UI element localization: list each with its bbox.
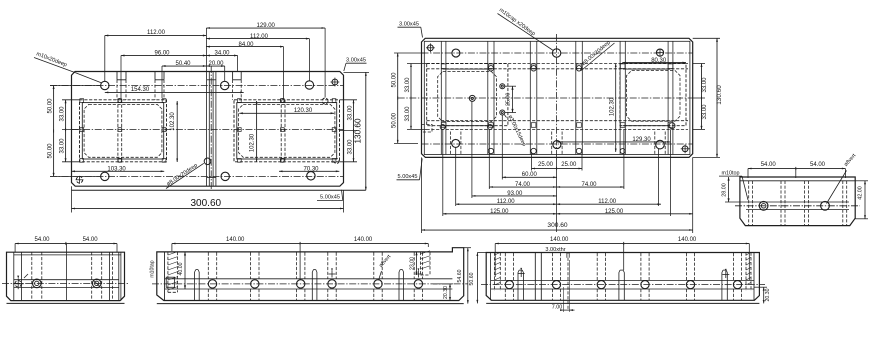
side view K hidden hole lines <box>505 253 741 300</box>
label chamfer 3.00x45 plate1 <box>344 58 367 72</box>
plate 2 column bosses <box>441 64 673 127</box>
side view K bore lines <box>491 279 754 281</box>
svg-text:54.60: 54.60 <box>457 269 463 282</box>
svg-text:5.00x45: 5.00x45 <box>398 174 418 180</box>
side view K position marks <box>518 268 730 278</box>
svg-text:96.00: 96.00 <box>154 50 170 56</box>
dim 125.00 right <box>557 213 693 215</box>
svg-text:50.40: 50.40 <box>175 61 191 67</box>
dim 70.30 <box>279 167 339 173</box>
svg-text:50.00: 50.00 <box>48 143 54 159</box>
dim 125.00 left <box>443 213 557 215</box>
plate 1 horizontal centerline <box>72 129 344 131</box>
side view I position marks <box>329 268 422 277</box>
dim 102.30 pocket A <box>170 101 178 162</box>
side view K centerline <box>481 284 765 286</box>
svg-text:28.00: 28.00 <box>721 183 727 197</box>
svg-text:34.00: 34.00 <box>214 50 230 56</box>
side view H holes <box>33 279 101 288</box>
plate 2 centerlines <box>398 34 693 157</box>
pocket C inner hidden rect <box>438 72 497 122</box>
label dia3.00x15deep with leader <box>504 114 527 147</box>
side view I bore lines <box>165 278 452 280</box>
svg-text:125.00: 125.00 <box>490 209 509 215</box>
svg-text:112.00: 112.00 <box>147 30 166 36</box>
svg-text:25.00: 25.00 <box>538 162 554 168</box>
side view K through hole 3.00 leader <box>545 247 569 310</box>
svg-text:3.00x45: 3.00x45 <box>346 58 366 64</box>
svg-text:3.00x45: 3.00x45 <box>399 22 419 28</box>
label dia8.00x20deep plate1 with leader <box>166 163 204 189</box>
plate 2 slot columns <box>441 41 673 154</box>
svg-text:25.00: 25.00 <box>561 162 577 168</box>
svg-text:40.00: 40.00 <box>178 262 184 275</box>
svg-text:74.00: 74.00 <box>515 182 531 188</box>
dim 300.60 plate1 <box>72 186 344 212</box>
pocket C hidden outline <box>427 64 508 126</box>
svg-text:50.60: 50.60 <box>469 272 475 285</box>
side view H outline <box>7 252 125 303</box>
dim 130.60 plate2 right <box>693 38 723 157</box>
svg-text:m10tap: m10tap <box>150 260 156 277</box>
svg-text:42.00: 42.00 <box>858 186 864 200</box>
svg-text:140.00: 140.00 <box>550 237 569 243</box>
side view G vertical hole lines <box>749 181 847 226</box>
svg-text:140.00: 140.00 <box>226 237 245 243</box>
label dia8.00x20deep plate2 with leader <box>580 40 614 71</box>
svg-text:300.60: 300.60 <box>547 222 568 229</box>
svg-text:60.00: 60.00 <box>522 172 538 178</box>
svg-text:125.00: 125.00 <box>605 209 624 215</box>
svg-text:50.00: 50.00 <box>392 72 398 88</box>
svg-text:33.00: 33.00 <box>702 104 708 120</box>
dim 7.00 side K <box>552 260 575 312</box>
dim 80.30 <box>622 58 686 64</box>
label chamfer 5.00x45 plate2 <box>397 159 423 181</box>
top view plate 2 outline <box>422 38 693 157</box>
svg-text:3.00xthr: 3.00xthr <box>545 247 565 253</box>
dim 28.00 side G <box>721 177 746 202</box>
plate 1 top row holes <box>101 81 314 90</box>
svg-text:33.00: 33.00 <box>405 106 411 122</box>
side view H rim lines <box>14 252 121 300</box>
svg-text:102.30: 102.30 <box>170 112 176 131</box>
dim 33.00 33.00 left <box>60 100 80 162</box>
dim 25.00 25.00 bottom <box>532 162 583 170</box>
side view K pins <box>518 270 727 300</box>
pocket D hidden outline <box>620 64 686 126</box>
dim 129.00 <box>206 23 325 97</box>
svg-text:54.00: 54.00 <box>761 162 777 168</box>
dim 130.60 right <box>344 72 370 190</box>
side view G outline <box>740 177 855 226</box>
dim 54.60 side I <box>457 248 471 304</box>
svg-text:20.00: 20.00 <box>208 61 224 67</box>
dim 103.30 <box>72 167 165 173</box>
pocket B inner hidden rect <box>239 104 335 157</box>
side view G holes <box>759 201 829 210</box>
plate 2 small pin holes dia3 <box>500 84 505 115</box>
side view I outline <box>157 248 464 304</box>
dim 112.00 right bottom <box>557 203 661 205</box>
pocket A inner hidden rect <box>84 104 162 157</box>
side view K outline <box>486 253 759 304</box>
svg-text:20.30: 20.30 <box>765 288 771 301</box>
svg-text:54.00: 54.00 <box>83 237 99 243</box>
svg-text:m10top: m10top <box>722 170 740 176</box>
svg-text:5.00x45: 5.00x45 <box>320 195 340 201</box>
svg-text:80.30: 80.30 <box>651 58 667 64</box>
svg-text:102.30: 102.30 <box>249 133 255 152</box>
pocket A corner bosses <box>80 99 166 163</box>
svg-text:102.30: 102.30 <box>609 97 615 116</box>
label dia8vert side G with leader <box>827 152 858 203</box>
dim extension lines plate2 bottom <box>422 101 693 233</box>
svg-text:103.30: 103.30 <box>107 167 126 173</box>
svg-text:25.00: 25.00 <box>506 93 512 106</box>
dim 60.00 <box>502 176 556 178</box>
svg-text:112.00: 112.00 <box>250 34 269 40</box>
dim 112.00 left <box>105 30 207 81</box>
side view H centerline <box>2 282 128 284</box>
plate 1 hole row centerlines <box>50 85 344 87</box>
svg-text:84.00: 84.00 <box>238 42 254 48</box>
side view I pins <box>195 270 404 301</box>
svg-text:33.00: 33.00 <box>348 105 354 121</box>
svg-text:140.00: 140.00 <box>678 237 697 243</box>
plate 1 bottom row holes <box>101 172 315 181</box>
svg-text:20.30: 20.30 <box>443 286 449 299</box>
side view I holes <box>208 280 422 288</box>
dim 74.00 right <box>557 186 624 188</box>
plate 2 top row holes <box>452 49 664 58</box>
dim 96.00 <box>121 50 206 98</box>
dim 140.00 140.00 side I <box>172 237 428 280</box>
plate 2 column hole circles <box>440 66 625 154</box>
dim 33.00 33.00 plate2 right <box>693 64 708 130</box>
svg-text:70.30: 70.30 <box>303 167 319 173</box>
svg-text:33.00: 33.00 <box>702 77 708 93</box>
side view I centerline <box>152 283 468 285</box>
svg-text:23.00: 23.00 <box>409 257 415 270</box>
side view H mid line <box>66 244 68 301</box>
label m10x20deep with leader <box>34 51 101 83</box>
svg-text:74.00: 74.00 <box>581 182 597 188</box>
svg-text:130.60: 130.60 <box>716 85 723 105</box>
plate 1 misc holes <box>204 98 339 165</box>
svg-text:112.00: 112.00 <box>497 199 516 205</box>
dim 93.00 <box>472 195 557 197</box>
pocket A hidden outline <box>80 100 167 162</box>
label m10cap x20deep with leader <box>498 7 554 50</box>
pocket D corner hole <box>669 123 675 129</box>
dim 20.30 side K <box>754 287 771 303</box>
svg-text:54.00: 54.00 <box>810 162 826 168</box>
dim 102.30 pocket B <box>249 101 257 162</box>
plate 2 bottom row holes <box>452 139 665 149</box>
svg-text:33.00: 33.00 <box>60 106 66 122</box>
plate 1 center slot columns <box>207 66 216 190</box>
dim 33.00 33.00 plate2 left <box>405 64 427 130</box>
label dia8vert side I with leader <box>378 253 393 280</box>
pocket B hidden outline <box>234 100 340 162</box>
side view H bore lines <box>14 279 119 281</box>
svg-text:140.00: 140.00 <box>354 237 373 243</box>
svg-text:129.30: 129.30 <box>632 137 651 143</box>
side view K right slot <box>746 252 754 300</box>
label m10top side G <box>719 170 748 200</box>
plate 2 corner target holes <box>426 43 690 153</box>
label chamfer 3.00x45 plate2 <box>398 22 423 38</box>
dim 50.40 <box>162 61 206 98</box>
svg-text:33.00: 33.00 <box>405 77 411 93</box>
side view G centerline <box>735 205 860 207</box>
dim 120.30 pocket B <box>239 108 334 114</box>
svg-text:154.30: 154.30 <box>131 87 150 93</box>
dim 54.00 54.00 side G <box>748 162 845 178</box>
side view G bore lines <box>746 202 849 210</box>
plate 1 corner target holes <box>76 78 340 184</box>
plate 1 top edge slots <box>117 72 241 100</box>
dim 102.30 pocket D <box>609 64 616 153</box>
svg-text:54.00: 54.00 <box>34 237 50 243</box>
side view K left slot <box>491 252 501 300</box>
dim 50.60 side K <box>469 253 486 304</box>
svg-text:130.60: 130.60 <box>354 118 363 143</box>
dim 129.30 <box>557 137 671 143</box>
dim 140.00 140.00 side K <box>495 237 749 280</box>
pocket C center hole <box>469 95 475 101</box>
plate 2 channel bands <box>427 64 689 130</box>
dim 34.00 <box>206 50 237 71</box>
dim 54.00 54.00 side H <box>15 237 117 252</box>
dim 112.00 right <box>206 28 309 81</box>
dim 300.60 plate2 <box>422 222 693 231</box>
dim 50.00 50.00 plate2 left <box>392 53 425 143</box>
svg-text:50.00: 50.00 <box>48 98 54 114</box>
dim 42.00 side G <box>855 181 868 219</box>
dim 33.00 33.00 right <box>340 100 358 162</box>
side view H hidden hole lines <box>32 252 102 300</box>
side view I left rim line <box>164 252 166 301</box>
hidden notch plate2 left edge <box>422 124 433 132</box>
label chamfer 5.00x45 plate1 <box>317 190 343 201</box>
side view I right slot 23.00 <box>421 251 431 275</box>
dim 23.00 side I <box>409 252 417 275</box>
svg-text:120.30: 120.30 <box>294 108 313 114</box>
dim 50.00 50.00 left <box>48 86 100 177</box>
svg-text:300.60: 300.60 <box>191 198 222 209</box>
side view H left target <box>13 274 28 289</box>
side view I hidden hole lines <box>208 253 422 301</box>
svg-text:112.00: 112.00 <box>598 199 617 205</box>
dim 84.00 <box>206 42 283 99</box>
svg-text:50.00: 50.00 <box>392 112 398 128</box>
dim 20.30 side I <box>433 284 453 301</box>
svg-text:129.00: 129.00 <box>257 23 276 29</box>
side view K holes <box>505 281 741 289</box>
pocket D inner hidden rect <box>627 71 680 122</box>
dim 20.00 <box>206 61 224 81</box>
svg-text:7.00: 7.00 <box>552 304 563 310</box>
plate 2 bottom hole hidden lines <box>451 132 666 156</box>
dim 154.30 <box>105 87 244 93</box>
dim 40.00 side I <box>178 252 186 289</box>
svg-text:33.00: 33.00 <box>348 139 354 155</box>
dim 74.00 left <box>489 186 556 188</box>
side view K full height rib lines <box>535 253 541 301</box>
svg-text:33.00: 33.00 <box>60 138 66 154</box>
pocket B corner bosses <box>238 99 336 163</box>
dim 25.00 pins <box>505 86 516 112</box>
dim 112.00 left bottom <box>456 203 557 205</box>
svg-text:93.00: 93.00 <box>507 191 523 197</box>
side view I m10tap slot <box>166 252 177 293</box>
top view plate 1 outline <box>72 72 366 191</box>
